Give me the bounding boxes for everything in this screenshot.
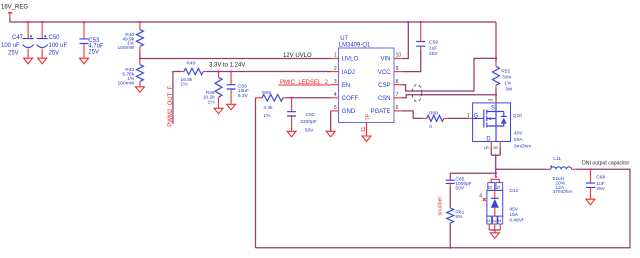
svg-text:3: 3	[497, 220, 503, 223]
junction SW at VO line	[495, 168, 497, 170]
svg-text:5: 5	[485, 146, 491, 149]
svg-text:Q10: Q10	[513, 113, 522, 119]
wire SW to L11	[496, 168, 546, 170]
svg-text:COFF: COFF	[342, 96, 359, 102]
resistor R55	[256, 90, 287, 119]
svg-text:1%: 1%	[504, 81, 512, 87]
svg-text:VIN: VIN	[380, 57, 390, 63]
svg-text:50V: 50V	[455, 186, 464, 192]
svg-text:VCC: VCC	[378, 70, 391, 76]
pin 7 CSN	[378, 92, 402, 102]
svg-text:D: D	[486, 136, 491, 142]
svg-text:6.3V: 6.3V	[238, 93, 249, 99]
svg-text:5: 5	[334, 105, 337, 111]
inductor L11	[546, 156, 575, 195]
svg-text:C59: C59	[429, 40, 438, 46]
wire VO loop	[256, 169, 631, 247]
wire PGATE net	[402, 111, 423, 119]
svg-text:C62: C62	[306, 112, 315, 118]
svg-text:37mOhm: 37mOhm	[553, 189, 573, 195]
svg-text:3.3k: 3.3k	[263, 105, 273, 111]
svg-text:45V: 45V	[509, 206, 518, 212]
pin stubs Q10 drain	[485, 142, 501, 156]
svg-text:CSN: CSN	[378, 96, 391, 102]
resistor R52	[493, 22, 513, 103]
svg-text:6: 6	[396, 105, 399, 111]
wire gate net	[448, 117, 469, 119]
svg-text:25V: 25V	[429, 51, 438, 57]
wire 16V_REG bus	[10, 18, 496, 23]
wire IADJ net	[207, 71, 331, 73]
junction SW at snubber line	[495, 172, 497, 174]
svg-text:100mW: 100mW	[117, 45, 134, 51]
svg-text:10: 10	[396, 53, 402, 59]
svg-text:50A: 50A	[514, 137, 523, 143]
svg-text:100 uF: 100 uF	[1, 43, 20, 49]
capacitor C50	[37, 22, 68, 58]
ground C53	[80, 58, 89, 64]
pin 5 GND	[331, 105, 356, 115]
wire switch node	[495, 155, 497, 177]
pin 9 VCC	[378, 66, 402, 76]
svg-text:3: 3	[334, 79, 337, 85]
svg-text:25V: 25V	[88, 49, 99, 55]
pin stub Q10 gate	[469, 117, 473, 119]
svg-text:1uF: 1uF	[429, 45, 437, 51]
svg-text:C47: C47	[12, 35, 24, 41]
svg-text:50V: 50V	[305, 127, 314, 133]
svg-text:8: 8	[396, 79, 399, 85]
svg-text:C68: C68	[596, 174, 605, 180]
svg-text:8: 8	[493, 146, 499, 149]
svg-text:DNI output capacitor: DNI output capacitor	[582, 160, 630, 166]
svg-text:5: 5	[496, 186, 502, 189]
svg-text:1: 1	[467, 113, 470, 119]
wire GND pin to ground	[330, 111, 332, 131]
svg-text:9: 9	[396, 66, 399, 72]
junction C59 tap	[420, 21, 422, 23]
svg-text:11: 11	[361, 127, 367, 132]
svg-text:3W: 3W	[505, 87, 513, 93]
capacitor C68	[586, 169, 606, 199]
svg-text:4: 4	[334, 92, 337, 98]
junction D12 top merge	[495, 176, 497, 178]
svg-text:R55: R55	[262, 90, 271, 96]
svg-text:100mW: 100mW	[117, 80, 134, 86]
junction C68 tap	[589, 168, 591, 170]
svg-text:U7: U7	[340, 36, 348, 42]
capacitor C53	[80, 22, 104, 58]
junction C53 tap	[83, 21, 85, 23]
wire VO left riser	[255, 98, 257, 248]
ground TP11	[362, 136, 371, 142]
svg-text:30m: 30m	[502, 75, 511, 81]
svg-text:12V UVLO: 12V UVLO	[283, 53, 312, 59]
wire CSP net	[402, 58, 496, 91]
junction C62 tap	[291, 97, 293, 99]
pin 2 IADJ	[331, 66, 355, 76]
junction R46 tap	[217, 70, 219, 72]
svg-text:UVLO: UVLO	[342, 57, 359, 63]
svg-text:C50: C50	[49, 35, 61, 41]
svg-text:5%: 5%	[455, 214, 463, 220]
svg-text:6: 6	[488, 186, 494, 189]
ground U7 GND	[326, 131, 335, 137]
svg-text:TP: TP	[365, 113, 371, 120]
svg-text:CSP: CSP	[378, 83, 390, 89]
wire EN net	[279, 84, 331, 86]
junction CSN at R52 bottom	[495, 94, 497, 96]
svg-text:4: 4	[479, 193, 482, 199]
ground C68	[586, 199, 595, 205]
svg-text:snubber: snubber	[437, 196, 443, 215]
svg-text:100 uF: 100 uF	[49, 43, 68, 49]
capacitor C65	[446, 177, 472, 192]
svg-text:R52: R52	[501, 69, 510, 75]
wire COFF net	[287, 97, 331, 99]
ground C56	[227, 104, 236, 110]
wire snubber branch	[450, 173, 496, 178]
junction VIN tap	[407, 21, 409, 23]
svg-text:16V_REG: 16V_REG	[1, 5, 28, 11]
wire CSN net	[402, 95, 496, 98]
svg-text:2: 2	[334, 66, 337, 72]
resistor R43	[117, 59, 143, 87]
junction C47 tap	[27, 21, 29, 23]
transistor Q10	[473, 99, 532, 150]
junction C50 tap	[41, 21, 43, 23]
svg-text:1%: 1%	[263, 113, 271, 119]
svg-text:25V: 25V	[49, 51, 60, 57]
svg-text:PGATE: PGATE	[371, 109, 391, 115]
wire 12V UVLO	[140, 58, 331, 60]
svg-text:2200pF: 2200pF	[300, 119, 316, 125]
op-amp U7 LM3409-Q1	[339, 36, 395, 123]
svg-text:1%: 1%	[181, 81, 189, 87]
pin 3 EN	[331, 79, 351, 89]
svg-text:EN: EN	[342, 83, 350, 89]
svg-text:3.3V to 1.24V: 3.3V to 1.24V	[209, 63, 245, 69]
svg-text:40V: 40V	[514, 131, 523, 137]
capacitor C59	[402, 22, 438, 72]
svg-text:7: 7	[396, 92, 399, 98]
wire PWM2_OUT_F	[173, 72, 181, 125]
resistor R40	[117, 22, 143, 59]
junction Q10 drain merge	[495, 154, 497, 156]
svg-text:R49: R49	[187, 61, 196, 67]
pin 1 UVLO	[331, 53, 359, 63]
svg-text:R58: R58	[429, 111, 438, 117]
svg-text:3: 3	[489, 99, 495, 102]
svg-text:L11: L11	[553, 156, 561, 162]
capacitor C47	[1, 22, 34, 58]
svg-text:LM3409-Q1: LM3409-Q1	[339, 42, 371, 48]
resistor R61	[447, 187, 465, 248]
ground C47	[24, 58, 33, 64]
junction R40/R43	[139, 57, 141, 59]
junction R40 tap	[139, 21, 141, 23]
power flag 16V_REG	[8, 12, 12, 18]
svg-text:1: 1	[334, 53, 337, 59]
resistor R58	[423, 111, 448, 130]
svg-text:0: 0	[429, 124, 432, 130]
resistor R49	[180, 61, 206, 88]
svg-text:GND: GND	[342, 109, 356, 115]
svg-text:25V: 25V	[8, 51, 19, 57]
pin 6 PGATE	[371, 105, 402, 115]
ground C50	[38, 58, 47, 64]
svg-text:D12: D12	[509, 188, 518, 194]
svg-text:25V: 25V	[596, 186, 605, 192]
diode D12	[479, 179, 524, 233]
ground D12	[490, 233, 499, 239]
junction CSP at R52 top	[495, 57, 497, 59]
ground R43	[135, 87, 144, 93]
svg-text:1%: 1%	[208, 99, 216, 105]
svg-text:0.48Vf: 0.48Vf	[509, 217, 524, 223]
kelvin sense dashed circle	[412, 85, 422, 102]
svg-text:IADJ: IADJ	[342, 70, 355, 76]
pin 8 CSP	[378, 79, 402, 89]
pin 4 COFF	[331, 92, 359, 102]
wire VIN to bus	[402, 22, 408, 59]
capacitor C62	[287, 98, 317, 134]
ground R46	[214, 108, 223, 114]
capacitor C56	[227, 72, 249, 105]
junction C56 tap	[230, 70, 232, 72]
svg-text:S: S	[491, 106, 495, 112]
pin 10 VIN	[380, 53, 402, 63]
wire TP11 to ground	[366, 123, 368, 137]
svg-text:15A: 15A	[509, 212, 518, 218]
ground C62	[287, 131, 296, 137]
svg-text:9mOhm: 9mOhm	[514, 144, 531, 150]
junction snubber at VO rail	[449, 247, 451, 249]
resistor R46	[203, 72, 222, 109]
